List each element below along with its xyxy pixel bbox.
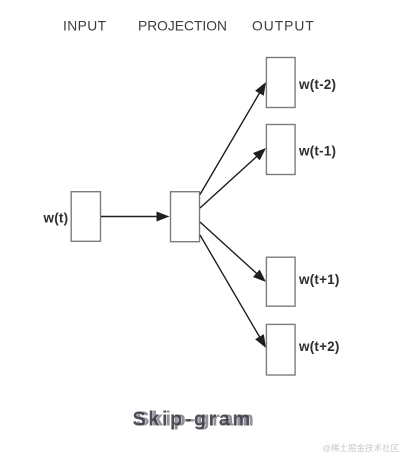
arrow projection to w(t+2) xyxy=(200,235,266,348)
svg-text:w(t-2): w(t-2) xyxy=(298,77,336,92)
svg-text:@稀土掘金技术社区: @稀土掘金技术社区 xyxy=(322,443,399,453)
svg-text:PROJECTION: PROJECTION xyxy=(138,19,227,34)
output box w(t+1) xyxy=(266,257,295,306)
output box w(t-2) xyxy=(266,58,295,108)
svg-text:w(t-1): w(t-1) xyxy=(298,143,336,158)
output box w(t+2) xyxy=(266,324,295,375)
arrow projection to w(t-2) xyxy=(200,82,266,195)
svg-text:w(t): w(t) xyxy=(43,211,69,226)
projection box xyxy=(171,192,200,242)
caption Skip-gram xyxy=(133,409,257,431)
arrow projection to w(t+1) xyxy=(200,222,266,282)
svg-text:Skip-gram: Skip-gram xyxy=(133,409,253,431)
output box w(t-1) xyxy=(266,125,295,175)
svg-text:OUTPUT: OUTPUT xyxy=(252,19,315,34)
svg-text:w(t+2): w(t+2) xyxy=(298,339,340,354)
input box w(t) xyxy=(71,192,100,242)
svg-text:INPUT: INPUT xyxy=(63,19,107,34)
svg-text:w(t+1): w(t+1) xyxy=(298,272,340,287)
arrow input to projection xyxy=(101,212,170,222)
arrow projection to w(t-1) xyxy=(200,148,266,208)
